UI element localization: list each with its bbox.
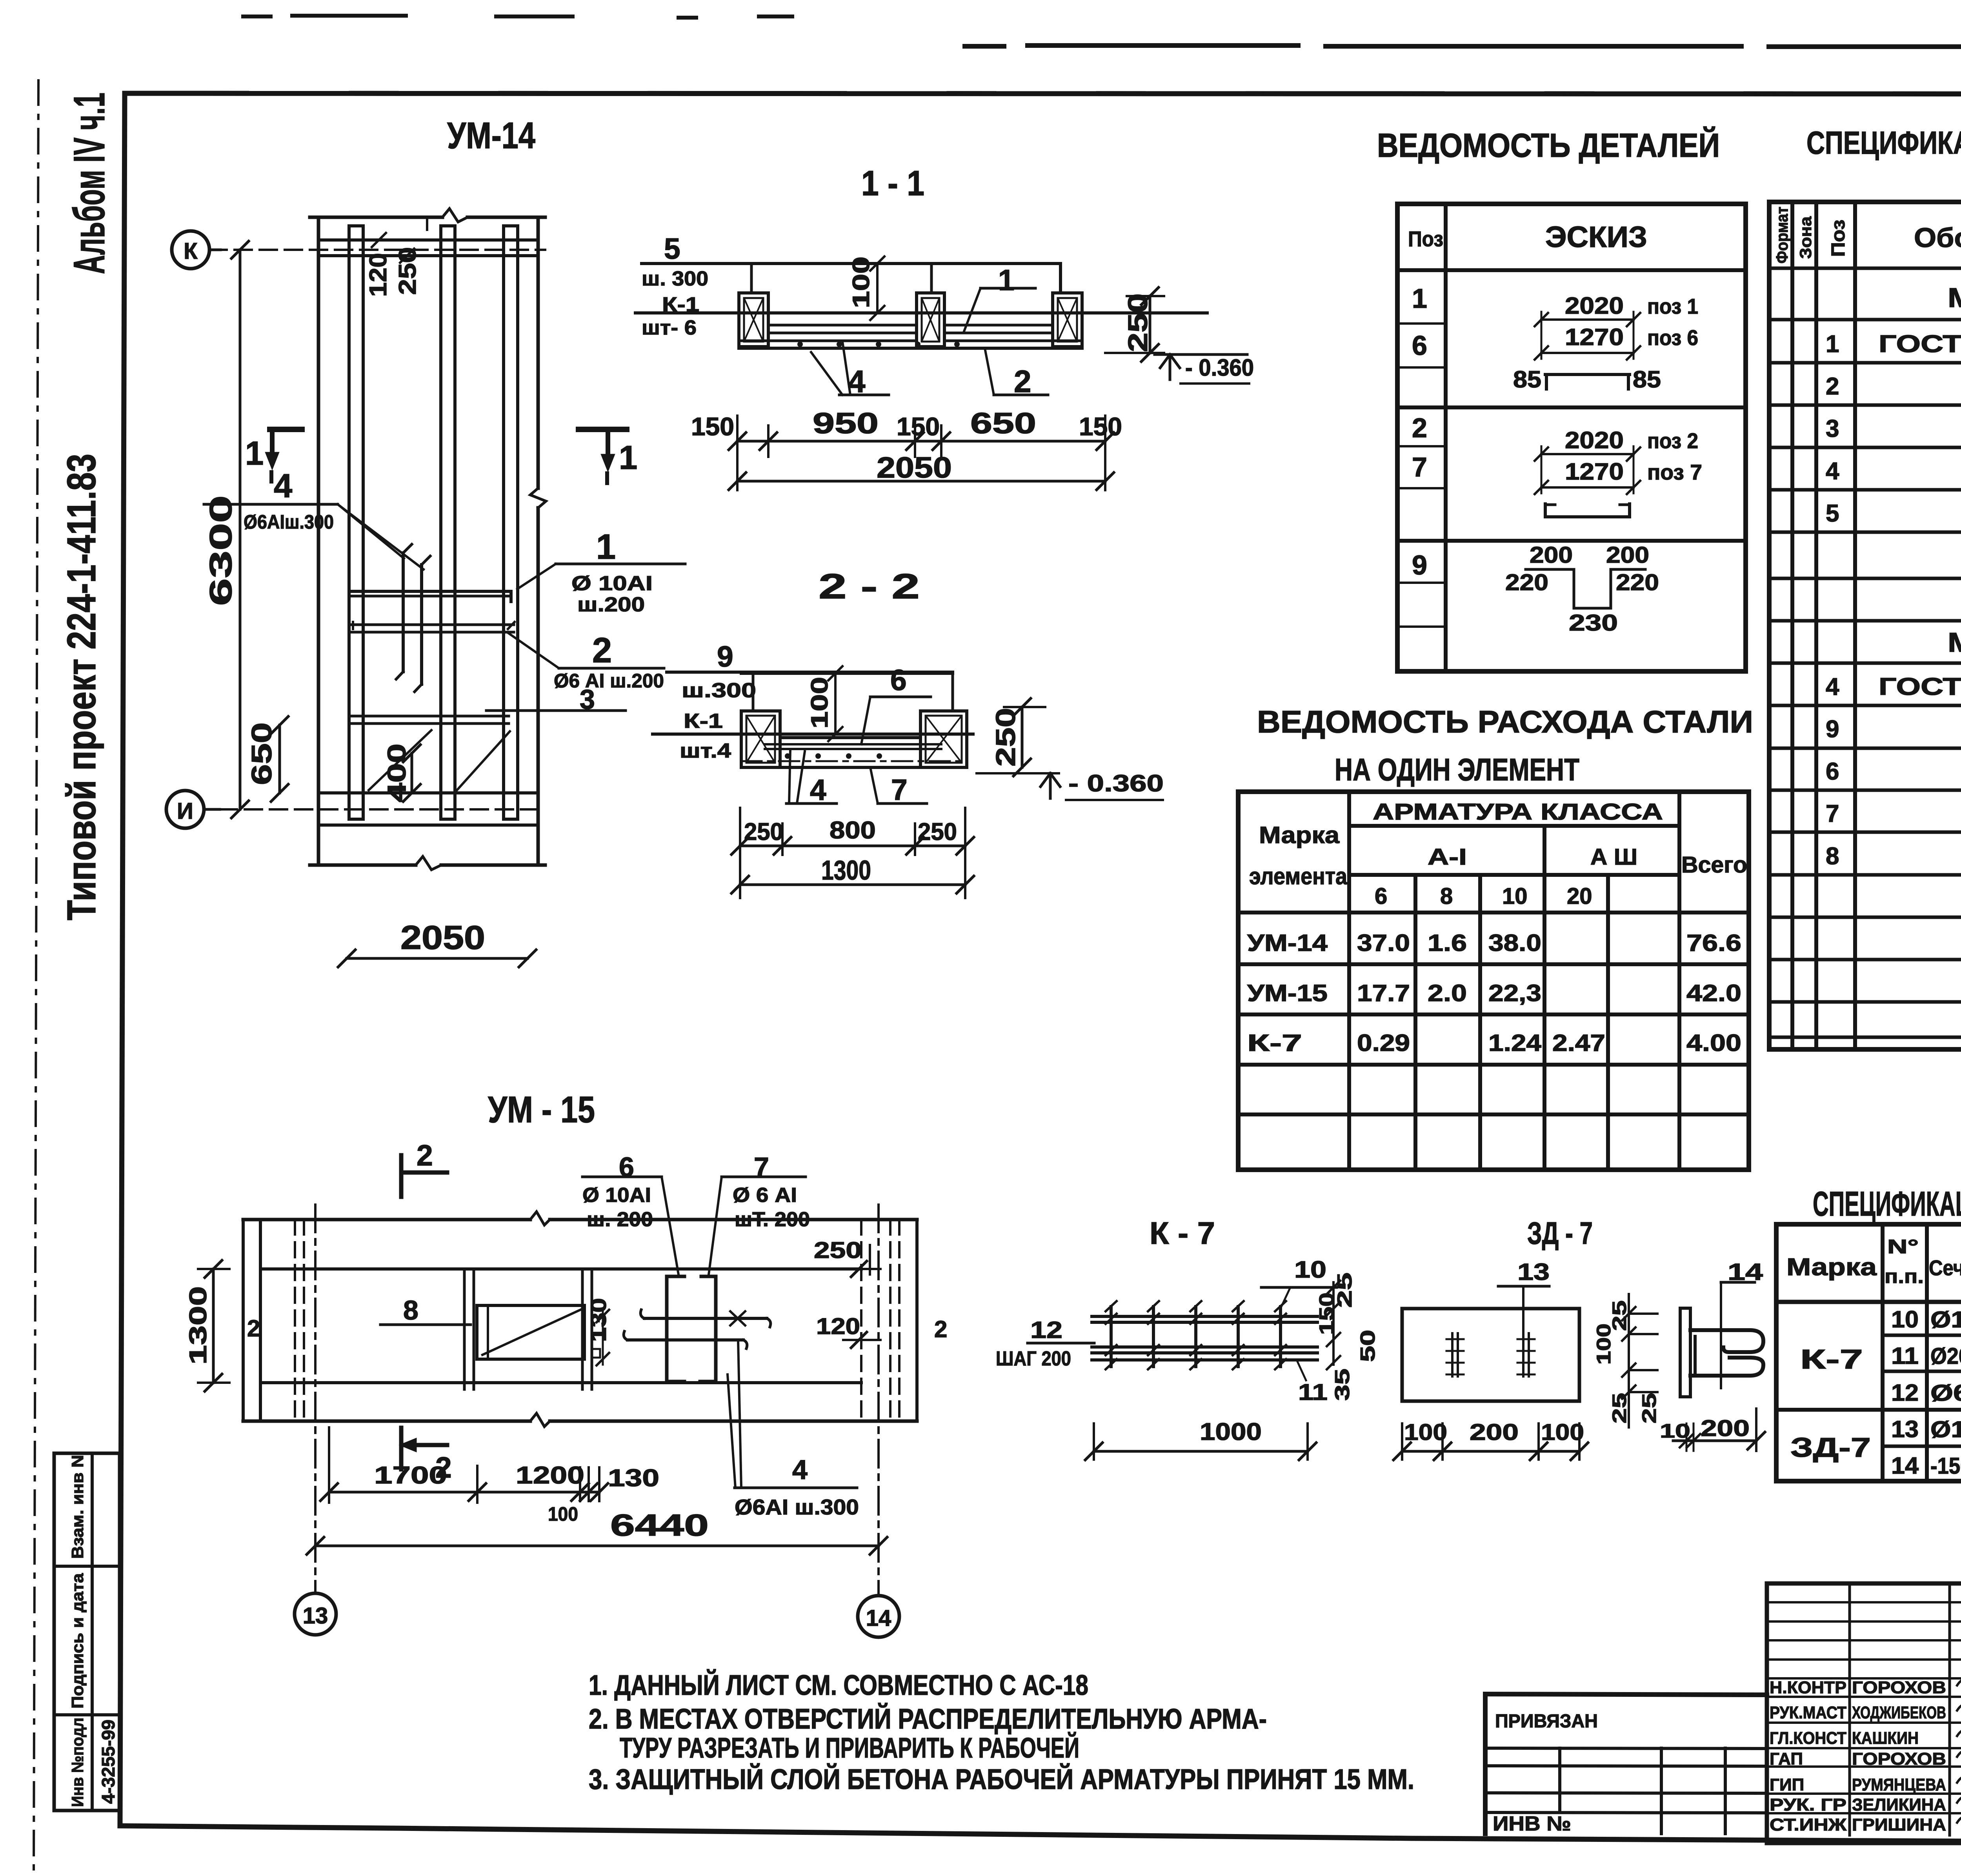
svg-text:150: 150 (1079, 412, 1122, 441)
svg-text:4: 4 (1826, 458, 1839, 485)
svg-text:1 - 1: 1 - 1 (861, 164, 924, 203)
svg-text:Взам. инв N: Взам. инв N (68, 1455, 87, 1559)
svg-text:150: 150 (897, 412, 940, 441)
svg-text:Ø 10АI: Ø 10АI (571, 572, 653, 595)
svg-text:6: 6 (1826, 758, 1839, 785)
svg-text:Обозначение: Обозначение (1914, 222, 1961, 253)
svg-text:2 - 2: 2 - 2 (819, 567, 920, 606)
svg-text:2: 2 (934, 1316, 947, 1342)
svg-text:Инв №подл: Инв №подл (68, 1718, 87, 1807)
svg-text:ГОРОХОВ: ГОРОХОВ (1852, 1678, 1946, 1697)
svg-text:1200: 1200 (516, 1462, 584, 1489)
svg-text:10: 10 (1891, 1306, 1919, 1332)
svg-text:1. ДАННЫЙ ЛИСТ СМ. СОВМЕСТНО С: 1. ДАННЫЙ ЛИСТ СМ. СОВМЕСТНО С АС-18 (589, 1669, 1088, 1701)
svg-text:1270: 1270 (1565, 324, 1624, 350)
svg-text:1.6: 1.6 (1428, 930, 1467, 956)
svg-text:ВЕДОМОСТЬ РАСХОДА СТАЛИ: ВЕДОМОСТЬ РАСХОДА СТАЛИ (1257, 704, 1753, 739)
svg-text:8: 8 (1440, 883, 1453, 909)
svg-text:ГИП: ГИП (1770, 1775, 1804, 1794)
svg-text:СПЕЦИФИКАЦИЯ МОНОЛИТНЫХ ЖЕЛЕЗО: СПЕЦИФИКАЦИЯ МОНОЛИТНЫХ ЖЕЛЕЗОБЕТОННЫХ (1806, 125, 1961, 161)
svg-text:Поз: Поз (1408, 227, 1443, 251)
svg-text:Альбом IV ч.1: Альбом IV ч.1 (65, 93, 114, 274)
svg-text:РУК. ГР: РУК. ГР (1770, 1795, 1846, 1814)
svg-text:2: 2 (1412, 413, 1427, 443)
svg-text:9: 9 (1826, 716, 1839, 743)
svg-text:400: 400 (382, 743, 411, 802)
svg-text:5: 5 (1826, 500, 1839, 527)
svg-text:250: 250 (394, 247, 421, 295)
svg-text:Ø10АI: Ø10АI (1930, 1417, 1961, 1442)
svg-text:2.47: 2.47 (1552, 1030, 1605, 1056)
svg-text:100: 100 (1593, 1323, 1615, 1365)
svg-text:ЗД - 7: ЗД - 7 (1527, 1216, 1593, 1251)
svg-text:14: 14 (1891, 1452, 1919, 1479)
svg-text:7: 7 (891, 773, 908, 806)
svg-text:6440: 6440 (610, 1508, 709, 1542)
svg-text:- 0.360: - 0.360 (1185, 354, 1254, 381)
svg-text:ш. 300: ш. 300 (642, 267, 708, 290)
svg-text:13: 13 (1517, 1259, 1550, 1285)
svg-text:2. В МЕСТАХ ОТВЕРСТИЙ РАСПРЕДЕ: 2. В МЕСТАХ ОТВЕРСТИЙ РАСПРЕДЕЛИТЕЛЬНУЮ … (589, 1703, 1267, 1735)
svg-text:ВЕДОМОСТЬ ДЕТАЛЕЙ: ВЕДОМОСТЬ ДЕТАЛЕЙ (1377, 126, 1720, 164)
svg-text:Всего: Всего (1681, 852, 1747, 878)
svg-text:4: 4 (274, 467, 292, 505)
svg-text:- 0.360: - 0.360 (1068, 770, 1164, 796)
svg-text:42.0: 42.0 (1686, 980, 1741, 1006)
svg-text:ш.300: ш.300 (682, 679, 756, 702)
svg-text:1000: 1000 (1200, 1418, 1262, 1445)
svg-text:поз 6: поз 6 (1647, 325, 1698, 350)
svg-text:ГЛ.КОНСТ: ГЛ.КОНСТ (1770, 1729, 1846, 1748)
svg-text:230: 230 (1569, 610, 1618, 636)
svg-text:ХОДЖИБЕКОВ: ХОДЖИБЕКОВ (1852, 1703, 1946, 1722)
svg-text:К-1: К-1 (684, 710, 723, 733)
svg-text:3: 3 (1826, 415, 1839, 442)
svg-text:6: 6 (890, 664, 907, 696)
svg-text:Сечение: Сечение (1929, 1256, 1961, 1280)
svg-text:38.0: 38.0 (1488, 930, 1541, 956)
svg-text:п.п.: п.п. (1885, 1265, 1924, 1287)
svg-text:130: 130 (608, 1465, 659, 1492)
svg-text:А-I: А-I (1428, 844, 1467, 870)
svg-text:ИНВ №: ИНВ № (1493, 1812, 1571, 1835)
svg-text:14: 14 (866, 1605, 891, 1631)
svg-text:Ø6АI ш.300: Ø6АI ш.300 (735, 1495, 859, 1519)
svg-text:ГОРОХОВ: ГОРОХОВ (1852, 1749, 1946, 1769)
svg-text:1: 1 (619, 439, 637, 476)
svg-text:6300: 6300 (203, 495, 238, 606)
svg-text:И: И (177, 798, 193, 824)
svg-text:ЗД-7: ЗД-7 (1790, 1432, 1871, 1463)
svg-text:250: 250 (814, 1238, 862, 1263)
svg-text:11: 11 (1891, 1343, 1919, 1369)
svg-text:13: 13 (303, 1603, 328, 1629)
svg-text:5: 5 (664, 232, 680, 265)
svg-text:4: 4 (1826, 673, 1839, 700)
svg-text:12: 12 (1891, 1380, 1919, 1406)
svg-text:85: 85 (1513, 366, 1541, 393)
svg-text:1: 1 (596, 527, 616, 567)
svg-text:120: 120 (816, 1314, 860, 1339)
svg-text:Типовой проект 224-1-411.83: Типовой проект 224-1-411.83 (59, 454, 104, 920)
svg-text:2: 2 (417, 1139, 433, 1172)
svg-text:К: К (184, 238, 198, 264)
svg-text:шт.4: шт.4 (680, 740, 731, 762)
svg-text:РУК.МАСТ: РУК.МАСТ (1770, 1703, 1846, 1722)
svg-text:22,3: 22,3 (1488, 980, 1541, 1006)
svg-text:поз 1: поз 1 (1647, 294, 1698, 318)
svg-text:К-7: К-7 (1247, 1030, 1302, 1056)
svg-text:25: 25 (1608, 1393, 1630, 1423)
svg-text:1300: 1300 (185, 1286, 212, 1365)
svg-text:4.00: 4.00 (1686, 1030, 1741, 1056)
svg-text:УМ-15: УМ-15 (1247, 980, 1328, 1006)
svg-text:76.6: 76.6 (1686, 930, 1741, 956)
svg-text:7: 7 (1412, 452, 1427, 482)
svg-text:Поз: Поз (1828, 220, 1849, 257)
svg-text:СТ.ИНЖ: СТ.ИНЖ (1770, 1815, 1846, 1834)
svg-text:220: 220 (1505, 570, 1548, 595)
svg-text:25: 25 (1638, 1393, 1660, 1423)
svg-text:800: 800 (830, 817, 876, 844)
svg-text:Марка: Марка (1786, 1254, 1877, 1281)
svg-text:85: 85 (1633, 366, 1661, 393)
svg-text:200: 200 (1606, 542, 1649, 568)
svg-text:37.0: 37.0 (1357, 930, 1410, 956)
svg-text:шт- 6: шт- 6 (642, 316, 697, 339)
svg-text:100: 100 (806, 677, 833, 729)
svg-text:20: 20 (1567, 883, 1592, 909)
svg-text:650: 650 (246, 722, 278, 785)
svg-text:Ø 10АI: Ø 10АI (582, 1184, 651, 1207)
svg-text:1700: 1700 (374, 1462, 447, 1489)
svg-text:6: 6 (1375, 883, 1387, 909)
svg-text:УМ-14: УМ-14 (447, 115, 535, 156)
svg-text:Монолитный участок УМ-14: Монолитный участок УМ-14 (1948, 282, 1961, 313)
svg-text:9: 9 (1412, 550, 1427, 580)
svg-text:1: 1 (998, 264, 1015, 296)
svg-text:3. ЗАЩИТНЫЙ СЛОЙ БЕТОНА РАБОЧЕ: 3. ЗАЩИТНЫЙ СЛОЙ БЕТОНА РАБОЧЕЙ АРМАТУРЫ… (589, 1763, 1414, 1795)
svg-text:элемента: элемента (1249, 863, 1348, 889)
svg-text:150: 150 (691, 412, 734, 441)
svg-text:950: 950 (813, 407, 879, 440)
svg-text:8: 8 (403, 1295, 418, 1325)
svg-text:Ø20АШ: Ø20АШ (1930, 1343, 1961, 1369)
svg-text:Н.КОНТР: Н.КОНТР (1770, 1678, 1846, 1697)
svg-text:1: 1 (1412, 283, 1427, 314)
svg-text:Ø 6 АI: Ø 6 АI (733, 1184, 797, 1207)
svg-text:ГРИШИНА: ГРИШИНА (1852, 1815, 1946, 1834)
svg-text:650: 650 (970, 407, 1036, 440)
svg-text:поз 7: поз 7 (1647, 460, 1702, 484)
svg-text:2: 2 (592, 631, 612, 670)
svg-text:ТУРУ РАЗРЕЗАТЬ И ПРИВАРИТЬ К Р: ТУРУ РАЗРЕЗАТЬ И ПРИВАРИТЬ К РАБОЧЕЙ (620, 1732, 1079, 1764)
svg-text:2.0: 2.0 (1428, 980, 1467, 1006)
svg-text:шТ. 200: шТ. 200 (735, 1208, 810, 1231)
svg-text:Формат: Формат (1773, 207, 1791, 264)
svg-text:Марка: Марка (1259, 822, 1340, 848)
svg-text:Ø6 АI: Ø6 АI (1930, 1380, 1961, 1406)
svg-text:1270: 1270 (1565, 458, 1624, 485)
svg-text:ЭСКИЗ: ЭСКИЗ (1545, 220, 1647, 253)
svg-text:50: 50 (1357, 1330, 1379, 1362)
svg-text:ШАГ 200: ШАГ 200 (996, 1347, 1071, 1370)
svg-text:11: 11 (1298, 1380, 1328, 1405)
svg-text:250: 250 (744, 818, 783, 845)
svg-text:ш.200: ш.200 (577, 593, 645, 616)
svg-text:2050: 2050 (877, 451, 952, 484)
svg-text:100: 100 (848, 256, 874, 308)
svg-text:250: 250 (1122, 293, 1153, 352)
svg-text:ГАП: ГАП (1770, 1749, 1803, 1769)
svg-text:Зона: Зона (1796, 216, 1815, 259)
svg-text:17.7: 17.7 (1357, 980, 1410, 1006)
svg-text:ГОСТ 5781-82: ГОСТ 5781-82 (1879, 673, 1961, 700)
svg-text:Ø6 АI ш.200: Ø6 АI ш.200 (554, 670, 664, 692)
svg-text:2: 2 (1826, 373, 1839, 400)
svg-text:1: 1 (245, 435, 264, 472)
svg-text:7: 7 (1826, 800, 1839, 827)
svg-text:4: 4 (810, 773, 826, 806)
svg-text:КАШКИН: КАШКИН (1852, 1729, 1919, 1748)
svg-text:2020: 2020 (1565, 427, 1624, 453)
svg-text:А Ш: А Ш (1590, 844, 1637, 870)
svg-text:УМ-14: УМ-14 (1247, 930, 1328, 956)
svg-text:2050: 2050 (400, 919, 485, 956)
svg-text:10: 10 (1502, 883, 1528, 909)
svg-text:ГОСТ 5781-82: ГОСТ 5781-82 (1879, 331, 1961, 358)
svg-text:6: 6 (1412, 330, 1427, 361)
svg-text:РУМЯНЦЕВА: РУМЯНЦЕВА (1852, 1775, 1946, 1794)
svg-text:1.24: 1.24 (1488, 1030, 1542, 1056)
svg-text:Ø10АI: Ø10АI (1930, 1307, 1961, 1332)
svg-text:250: 250 (990, 708, 1021, 767)
svg-text:Ø6АIш.300: Ø6АIш.300 (244, 511, 334, 533)
svg-text:4: 4 (792, 1454, 808, 1485)
svg-text:АРМАТУРА КЛАССА: АРМАТУРА КЛАССА (1373, 799, 1663, 825)
svg-text:10: 10 (1294, 1256, 1326, 1283)
svg-text:НА ОДИН ЭЛЕМЕНТ: НА ОДИН ЭЛЕМЕНТ (1335, 752, 1579, 787)
svg-text:9: 9 (717, 640, 733, 673)
svg-text:4-3255-99: 4-3255-99 (98, 1720, 118, 1804)
svg-text:УМ - 15: УМ - 15 (488, 1089, 595, 1131)
svg-text:250: 250 (918, 818, 957, 845)
svg-text:Монолитный участок УМ-15: Монолитный участок УМ-15 (1948, 627, 1961, 658)
svg-text:-150×10: -150×10 (1930, 1453, 1961, 1479)
svg-text:120: 120 (365, 253, 392, 297)
svg-text:220: 220 (1616, 570, 1659, 595)
svg-text:0.29: 0.29 (1357, 1030, 1410, 1056)
svg-text:12: 12 (1030, 1317, 1062, 1343)
svg-text:поз 2: поз 2 (1647, 429, 1698, 453)
svg-text:К - 7: К - 7 (1150, 1216, 1215, 1251)
svg-text:К-7: К-7 (1800, 1344, 1863, 1374)
svg-text:ш. 200: ш. 200 (587, 1208, 653, 1231)
svg-text:ПРИВЯЗАН: ПРИВЯЗАН (1495, 1711, 1598, 1732)
svg-text:200: 200 (1701, 1416, 1750, 1441)
svg-text:100: 100 (548, 1503, 578, 1525)
svg-text:8: 8 (1826, 843, 1839, 870)
svg-text:35: 35 (1331, 1369, 1354, 1401)
svg-text:ЗЕЛИКИНА: ЗЕЛИКИНА (1852, 1795, 1946, 1814)
svg-text:13: 13 (1891, 1416, 1919, 1442)
svg-text:200: 200 (1470, 1420, 1519, 1445)
svg-text:2020: 2020 (1565, 293, 1624, 319)
svg-text:СПЕЦИФИКАЦИЯ МЕТАЛЛА НА ОДНО И: СПЕЦИФИКАЦИЯ МЕТАЛЛА НА ОДНО ИЗДЕЛИЕ (1813, 1184, 1961, 1223)
svg-text:1: 1 (1826, 331, 1839, 358)
svg-text:1300: 1300 (821, 855, 871, 885)
svg-text:Подпись и дата: Подпись и дата (68, 1573, 87, 1709)
svg-text:N°: N° (1887, 1236, 1919, 1258)
svg-text:150: 150 (1315, 1292, 1338, 1335)
svg-text:200: 200 (1530, 542, 1573, 568)
svg-text:2: 2 (247, 1315, 260, 1342)
